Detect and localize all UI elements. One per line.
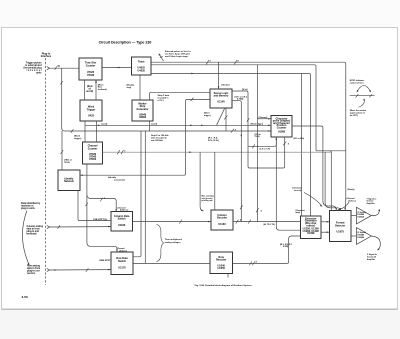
- wire verticals into decoder top: [200, 152, 215, 211]
- wire sense logic right out1 to char position counter: [232, 89, 285, 168]
- wire timer display skip to marker strip gen: [127, 75, 141, 100]
- svg-text:U1140: U1140: [217, 101, 225, 104]
- wire row analog input: [50, 260, 112, 272]
- svg-text:(Word: (Word: [74, 135, 81, 138]
- svg-text:skip): skip): [127, 87, 132, 89]
- wire decoder line box7 to char generator: [133, 218, 301, 226]
- trigger pulses input text: [24, 63, 43, 75]
- wire box6 bottom to column data switch: [78, 191, 111, 221]
- svg-text:Address): Address): [120, 209, 129, 212]
- column analog text + pointer: [27, 226, 44, 235]
- wire timer output y64.8: [151, 65, 316, 151]
- word trigger U425: [80, 100, 102, 121]
- label ready + channel address near format detector: [338, 189, 357, 211]
- svg-text:Timer: Timer: [138, 61, 145, 64]
- wire marker strip to sense logic: [150, 92, 211, 102]
- format detector U1075: [330, 211, 352, 242]
- svg-text:(M.1 to M.8): (M.1 to M.8): [294, 137, 305, 140]
- marker strip generator U2940: [132, 100, 153, 121]
- svg-text:analog voltages: analog voltages: [165, 241, 182, 244]
- node input chevron 2: [47, 225, 50, 228]
- svg-text:U1170: U1170: [118, 267, 126, 270]
- svg-text:Counter: Counter: [88, 147, 98, 150]
- time slot counter U7425: [79, 58, 102, 80]
- character generator U1250: [301, 216, 322, 239]
- wire junction branch down at x62 to word-trigger line: [60, 68, 64, 131]
- svg-text:U1050: U1050: [218, 267, 226, 270]
- svg-text:Decoder: Decoder: [217, 217, 227, 220]
- svg-text:Detector: Detector: [335, 224, 345, 227]
- svg-text:Counter: Counter: [277, 127, 287, 130]
- svg-text:and Z-Axis Logic stage: and Z-Axis Logic stage: [165, 55, 189, 58]
- svg-text:printing rate: printing rate: [202, 199, 213, 202]
- svg-text:Time-multiplexed: Time-multiplexed: [165, 238, 183, 241]
- wire marker strip bottom stub: [148, 121, 150, 131]
- svg-text:U1096B: U1096B: [357, 237, 364, 239]
- svg-text:Counter: Counter: [86, 64, 96, 67]
- svg-text:U1160: U1160: [218, 223, 226, 226]
- svg-text:(Word trigger): (Word trigger): [251, 123, 264, 126]
- wire C.S or C.P line into U1080 bottom: [248, 137, 277, 151]
- svg-text:CSB NT/FT (5): CSB NT/FT (5): [93, 219, 107, 221]
- wire timer output top y62.2: [151, 60, 346, 210]
- svg-text:command): command): [114, 180, 125, 182]
- svg-text:U1180: U1180: [118, 224, 126, 227]
- svg-text:one 200-kHz: one 200-kHz: [151, 140, 163, 142]
- brace time-multiplexed: [157, 225, 183, 262]
- svg-text:feedback): feedback): [98, 89, 107, 91]
- identify network: [58, 170, 80, 191]
- svg-text:R.1k, R.2k): R.1k, R.2k): [208, 140, 219, 142]
- wire sense logic right out2 down to decoder line: [232, 95, 248, 221]
- svg-text:REM NT/FT: REM NT/FT: [100, 260, 112, 262]
- wire sense logic bottom to word-trigger bus: [208, 108, 237, 142]
- wire x62 down to identify network: [61, 131, 73, 170]
- svg-text:Trigger: Trigger: [87, 108, 96, 111]
- label 7S1 to 7S13: [255, 133, 262, 138]
- wire X output curve: [367, 236, 380, 261]
- character position counter U1080: [271, 116, 292, 138]
- svg-text:R.2M): R.2M): [283, 246, 289, 248]
- svg-text:number of lines: number of lines: [350, 82, 364, 84]
- channel counter U7030: [83, 142, 103, 164]
- sense logic and memory U1140: [210, 89, 232, 108]
- wire word trigger down to channel counter: [85, 121, 108, 142]
- wire x141 row data switch up to bus: [133, 131, 141, 257]
- wire U1080 bottom left down to char generator: [276, 137, 304, 230]
- wire x145.3 vertical: [144, 131, 146, 263]
- wire timer x257.5 vertical down: [256, 65, 271, 222]
- data identified text + pointer: [21, 202, 41, 266]
- wire external pulses arrow: [159, 50, 192, 61]
- svg-text:Interface: Interface: [41, 55, 52, 58]
- note sketch top right: [350, 79, 375, 117]
- svg-text:U2960: U2960: [139, 116, 147, 119]
- wire trigger input to U7425: [50, 65, 79, 70]
- svg-text:data): data): [296, 211, 301, 214]
- op-amp Y U1094A: [357, 207, 372, 224]
- svg-text:Fig. 3-58. Detailed block dia: Fig. 3-58. Detailed block diagram of Rea…: [195, 284, 253, 287]
- svg-text:U425: U425: [88, 115, 95, 118]
- row analog text + pointer: [27, 266, 40, 276]
- row data switch U1170: [111, 252, 133, 275]
- timer U4025: [132, 57, 152, 75]
- wire Y output curve: [367, 197, 381, 215]
- row recycler U1040: [210, 252, 233, 274]
- svg-text:U1075: U1075: [337, 231, 345, 234]
- svg-text:Network: Network: [64, 180, 74, 183]
- wire main bus y125.3: [85, 125, 271, 127]
- svg-text:U1080: U1080: [278, 131, 286, 134]
- plug-in interface dashed line: [41, 53, 52, 285]
- wire U7425 to Timer: [102, 67, 132, 69]
- svg-text:Circuit Description — Type 230: Circuit Description — Type 230: [99, 41, 152, 45]
- wire recycler bottom stub: [227, 274, 229, 278]
- svg-text:7S12): 7S12): [64, 162, 70, 164]
- label character current + arrow: [293, 187, 323, 207]
- svg-text:terminals: terminals: [27, 232, 38, 235]
- wire column analog input: [50, 219, 111, 229]
- wire timer output y73.5 to character generator: [151, 73, 311, 216]
- svg-text:Amplifier: Amplifier: [367, 202, 375, 205]
- wire strobe into sense logic: [218, 62, 230, 89]
- svg-text:U1096A: U1096A: [357, 215, 364, 218]
- svg-text:U7436: U7436: [87, 74, 95, 77]
- wire U1080 right out to format detector via x322.9: [292, 126, 341, 211]
- wire x331 corner down to format detector: [316, 150, 346, 152]
- svg-text:Switch: Switch: [118, 260, 127, 263]
- node input chevron 1: [47, 67, 50, 70]
- wire row switch to recycler to char gen: [133, 236, 301, 265]
- svg-text:(7S11 or: (7S11 or: [64, 158, 72, 161]
- svg-text:(Identify: (Identify: [108, 176, 117, 179]
- wire gray bus y152.2: [103, 150, 332, 154]
- svg-text:(4L T2 G TK): (4L T2 G TK): [264, 223, 276, 226]
- svg-text:a 7S-1: a 7S-1: [158, 100, 165, 102]
- svg-text:(C.S or C.P): (C.S or C.P): [260, 149, 271, 151]
- svg-text:current): current): [294, 189, 302, 192]
- svg-text:units: units: [36, 72, 42, 75]
- svg-text:address): address): [119, 250, 127, 252]
- svg-text:and Memory: and Memory: [214, 94, 229, 97]
- svg-text:(Ready): (Ready): [348, 189, 355, 191]
- wire char gen to format detector: [321, 221, 330, 233]
- svg-text:U1298: U1298: [307, 232, 315, 235]
- svg-text:trigger): trigger): [204, 114, 211, 117]
- svg-text:Switch: Switch: [118, 217, 127, 220]
- wire bus between U7425 and word trigger: [85, 80, 107, 100]
- svg-text:3-56: 3-56: [22, 295, 28, 299]
- svg-text:Generator: Generator: [137, 108, 149, 111]
- svg-text:nectors: nectors: [27, 272, 36, 275]
- svg-text:word): word): [86, 90, 93, 93]
- svg-text:Amplifier: Amplifier: [367, 258, 375, 261]
- svg-text:U4035: U4035: [138, 69, 146, 72]
- svg-text:U7050: U7050: [89, 158, 97, 161]
- svg-text:(word): (word): [151, 123, 157, 125]
- wire channel address from channel counter: [85, 164, 117, 252]
- column data switch U1180: [111, 212, 133, 232]
- column decoder U1160: [211, 210, 233, 230]
- svg-text:(4): (4): [58, 65, 61, 68]
- strip P 100kHz text: [151, 134, 169, 142]
- wire identify command: box6 to sense logic: [80, 98, 210, 182]
- svg-text:address): address): [348, 200, 356, 202]
- svg-text:Recycler: Recycler: [216, 259, 226, 262]
- svg-text:(Strobe): (Strobe): [222, 84, 230, 87]
- node input chevron 3: [47, 268, 50, 271]
- svg-text:trigger): trigger): [74, 137, 82, 140]
- wire sense logic diagonal to bus: [217, 108, 225, 125]
- svg-text:plug-in units: plug-in units: [21, 207, 36, 210]
- op-amp X U1094B: [357, 228, 372, 245]
- svg-text:(L NB)): (L NB)): [237, 99, 244, 101]
- wire word trigger bus y131: [65, 129, 271, 140]
- wire format detector to op-amps: [351, 216, 357, 236]
- svg-text:(W rd): (W rd): [242, 89, 248, 91]
- svg-text:the CRT).: the CRT).: [350, 114, 359, 117]
